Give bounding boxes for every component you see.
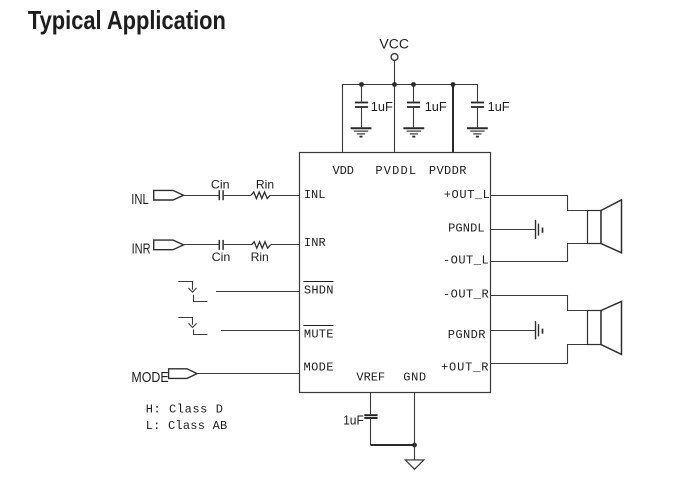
wire Rin to INR pin — [271, 244, 300, 246]
svg-text:-OUT_L: -OUT_L — [443, 254, 489, 268]
svg-text:+OUT_R: +OUT_R — [441, 360, 489, 374]
ground C1 — [351, 128, 372, 136]
wire Rin to INL pin — [270, 195, 299, 197]
VCC terminal — [391, 54, 398, 61]
svg-text:PVDDL: PVDDL — [375, 164, 416, 178]
svg-text:Typical Application: Typical Application — [28, 5, 226, 35]
wire to SHDN pin — [216, 291, 300, 293]
resistor Rin (INL) — [251, 192, 270, 199]
junction dot GND — [412, 443, 417, 448]
junction dot VCC/bus — [392, 82, 397, 87]
wire bus to PVDDR pin — [452, 85, 454, 153]
input tag INR — [154, 240, 184, 250]
capacitor C2 1uF — [407, 85, 447, 128]
wire +OUT_R to speaker SP2 — [491, 345, 588, 364]
wire PGNDL to ground — [491, 229, 535, 231]
wire Cin to Rin — [224, 195, 251, 197]
svg-text:Rin: Rin — [256, 177, 274, 191]
op-amp U1 (amplifier IC body) — [300, 153, 491, 393]
wire to MUTE pin — [221, 330, 300, 332]
wire PGNDR to ground — [491, 330, 535, 332]
svg-text:1uF: 1uF — [425, 99, 447, 114]
pin label MUTE with overline — [304, 326, 334, 342]
wire bus to PVDDL pin — [394, 85, 396, 153]
svg-text:-OUT_R: -OUT_R — [443, 287, 489, 301]
svg-text:INR: INR — [304, 236, 326, 250]
wire -OUT_L to speaker SP1 — [491, 244, 588, 262]
wire VREF pin to C4 — [370, 393, 372, 415]
svg-text:Cin: Cin — [211, 177, 230, 191]
capacitor Cin (INR) — [219, 240, 223, 250]
supply bus wire — [342, 84, 478, 86]
resistor Rin (INR) — [252, 242, 271, 249]
wire C4 to GND net — [371, 444, 415, 446]
svg-text:VCC: VCC — [379, 37, 409, 52]
capacitor C1 1uF — [355, 85, 393, 128]
capacitor C3 1uF — [471, 85, 510, 128]
junction dot C2/bus — [411, 82, 416, 87]
svg-text:VREF: VREF — [356, 370, 385, 384]
pin label SHDN with overline — [304, 282, 334, 298]
capacitor Cin (INL) — [219, 190, 223, 200]
svg-text:Cin: Cin — [212, 250, 231, 264]
wire GND pin down — [414, 393, 416, 460]
wire INR tag to Cin — [184, 244, 219, 246]
svg-text:PVDDR: PVDDR — [429, 164, 467, 178]
ground PGNDL (rotated) — [536, 220, 543, 239]
wire bus to VDD pin — [342, 85, 344, 153]
svg-text:VDD: VDD — [333, 164, 354, 178]
junction dot C1/bus — [359, 82, 364, 87]
capacitor C4 1uF — [343, 412, 377, 427]
speaker SP1 — [588, 200, 622, 253]
svg-text:SHDN: SHDN — [304, 283, 334, 297]
svg-text:MODE: MODE — [131, 369, 168, 386]
ground C3 — [467, 128, 488, 136]
svg-text:MODE: MODE — [304, 361, 334, 375]
wire VCC terminal to bus — [394, 60, 396, 84]
input tag INL — [154, 190, 184, 200]
svg-text:H: Class D: H: Class D — [146, 403, 223, 417]
svg-text:Rin: Rin — [251, 250, 269, 264]
wire Cin to Rin (INR) — [224, 244, 252, 246]
svg-text:1uF: 1uF — [371, 99, 393, 114]
wire MODE tag to MODE pin — [197, 373, 300, 375]
svg-text:INL: INL — [304, 188, 326, 202]
control-signal symbol MUTE — [178, 318, 207, 335]
svg-text:1uF: 1uF — [343, 412, 364, 427]
svg-text:1uF: 1uF — [488, 99, 510, 114]
junction dot PVDDR/bus — [451, 82, 456, 87]
svg-text:PGNDR: PGNDR — [448, 328, 486, 342]
ground triangle — [405, 460, 424, 469]
wire C4 down — [370, 419, 372, 445]
svg-text:L: Class AB: L: Class AB — [146, 419, 228, 433]
wire INL tag to Cin — [184, 195, 219, 197]
wire +OUT_L to speaker SP1 — [491, 196, 588, 211]
svg-text:INL: INL — [131, 191, 148, 208]
control-signal symbol SHDN — [178, 282, 207, 302]
svg-text:MUTE: MUTE — [304, 328, 334, 342]
svg-text:INR: INR — [132, 241, 151, 258]
ground PGNDR (rotated) — [536, 321, 543, 339]
wire -OUT_R to speaker SP2 — [491, 296, 588, 311]
input tag MODE — [169, 369, 197, 379]
svg-text:GND: GND — [403, 370, 426, 384]
speaker SP2 — [588, 301, 622, 354]
svg-text:PGNDL: PGNDL — [448, 222, 485, 236]
ground C2 — [403, 128, 424, 136]
svg-text:+OUT_L: +OUT_L — [444, 188, 490, 202]
